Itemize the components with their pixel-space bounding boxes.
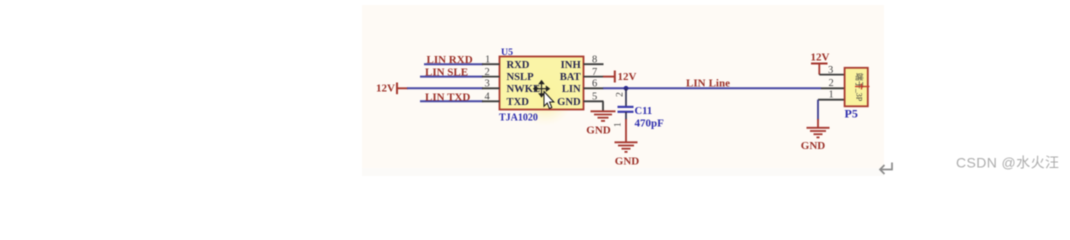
svg-text:RXD: RXD <box>507 60 530 71</box>
cursor move cross <box>534 81 549 97</box>
svg-text:INH: INH <box>561 60 582 71</box>
svg-text:5: 5 <box>592 92 597 103</box>
wire pin 1 of P5 down to ground <box>817 100 819 120</box>
ground at pin 5 <box>591 110 616 112</box>
svg-text:TJA1020: TJA1020 <box>499 112 538 123</box>
svg-text:6: 6 <box>592 79 597 90</box>
svg-text:3: 3 <box>828 65 833 76</box>
connector pin 2 stub <box>821 87 845 89</box>
pin 4 stub <box>482 100 500 102</box>
svg-text:1: 1 <box>485 55 490 66</box>
svg-text:8: 8 <box>592 55 597 66</box>
svg-text:LIN: LIN <box>562 84 581 95</box>
svg-text:LIN SLE: LIN SLE <box>425 67 468 79</box>
svg-text:NSLP: NSLP <box>507 72 535 83</box>
svg-text:GND: GND <box>615 156 640 168</box>
ground under C11 <box>615 141 638 143</box>
svg-text:LIN TXD: LIN TXD <box>425 91 470 103</box>
wire LIN TXD to pin 4 <box>420 100 483 102</box>
svg-text:7: 7 <box>592 67 597 78</box>
wire 12V down to pin 3 of P5 <box>818 64 820 75</box>
cursor arrow pointer <box>544 92 554 109</box>
ground at P5 <box>807 127 830 129</box>
svg-text:12V: 12V <box>618 71 637 83</box>
pin 7 stub <box>584 76 604 78</box>
op-amp U1 glow highlight around cursor <box>516 68 574 126</box>
svg-text:CSDN @水火汪: CSDN @水火汪 <box>956 154 1059 170</box>
video frame background <box>362 5 884 170</box>
svg-text:GND: GND <box>557 97 581 108</box>
svg-text:端子_3P: 端子_3P <box>855 73 865 102</box>
svg-text:4: 4 <box>485 92 491 103</box>
power port 12V at pin 7 <box>603 76 615 78</box>
svg-text:3: 3 <box>485 79 490 90</box>
pin 6 stub <box>584 87 604 89</box>
svg-text:U5: U5 <box>501 47 513 58</box>
wire junction down to capacitor <box>625 88 627 106</box>
svg-text:GND: GND <box>801 140 826 152</box>
svg-text:2: 2 <box>485 67 490 78</box>
connector pin 1 stub <box>818 99 845 101</box>
wire 12V to pin 3 <box>407 87 483 89</box>
svg-text:470pF: 470pF <box>635 117 665 129</box>
wire capacitor to ground <box>625 112 627 120</box>
wire pin 5 to ground <box>602 101 604 110</box>
connector P5 body <box>845 68 868 107</box>
svg-text:2: 2 <box>829 78 834 89</box>
svg-text:12V: 12V <box>376 82 395 94</box>
wire LIN SLE to pin 2 <box>420 76 483 78</box>
svg-text:2: 2 <box>616 92 626 97</box>
svg-text:C11: C11 <box>635 106 653 117</box>
svg-text:1: 1 <box>614 122 624 127</box>
svg-text:LIN RXD: LIN RXD <box>427 54 473 66</box>
IC U5 body <box>500 57 584 110</box>
svg-text:1: 1 <box>829 90 834 101</box>
pin 3 stub <box>482 87 500 89</box>
pin 1 stub <box>482 63 500 65</box>
pin 2 stub <box>482 76 500 78</box>
svg-text:TXD: TXD <box>507 97 530 108</box>
connector graphic red mark <box>855 86 870 88</box>
wire LIN RXD to pin 1 <box>424 63 483 65</box>
pin 5 stub <box>584 100 604 102</box>
svg-text:BAT: BAT <box>560 72 581 83</box>
return arrow glyph <box>880 163 892 175</box>
junction node <box>624 86 629 91</box>
wire pin 6 to junction and LIN Line <box>603 87 821 89</box>
svg-text:LINLine: LINLine <box>686 78 730 90</box>
connector pin 3 stub <box>819 74 844 76</box>
pin 8 stub <box>584 63 604 65</box>
svg-text:GND: GND <box>586 124 611 136</box>
bottom faint band <box>362 168 884 176</box>
capacitor C11 <box>618 106 634 108</box>
svg-text:P5: P5 <box>845 107 858 121</box>
svg-text:12V: 12V <box>811 51 830 63</box>
